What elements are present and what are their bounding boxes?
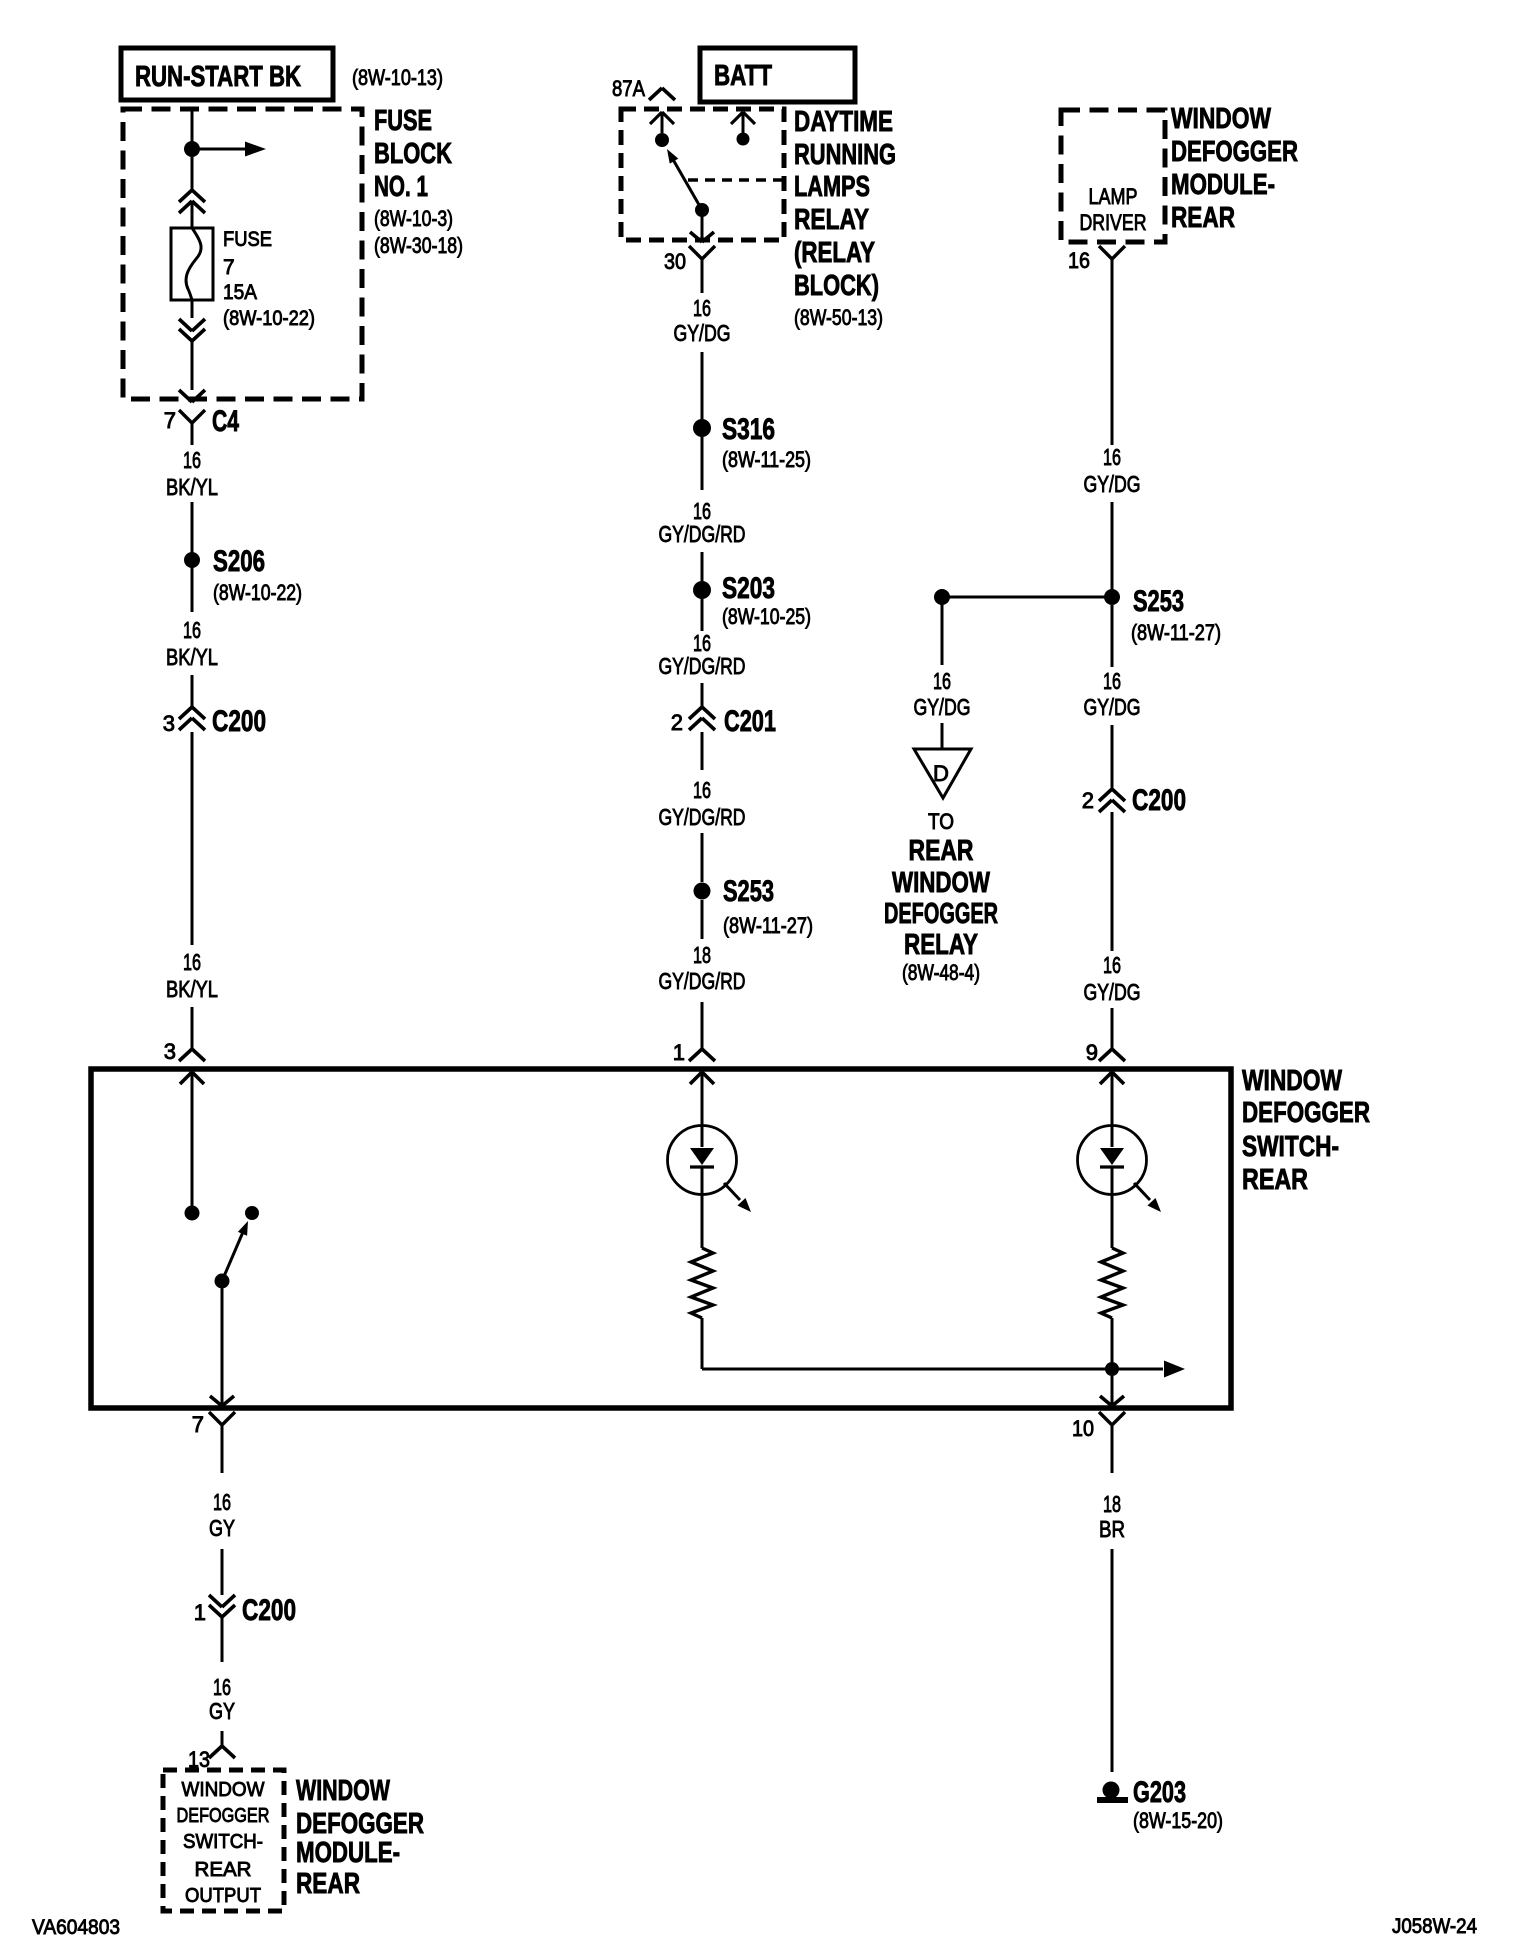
svg-text:GY: GY (209, 1698, 235, 1724)
wire (701, 552, 704, 581)
svg-text:(8W-11-27): (8W-11-27) (723, 913, 813, 938)
svg-text:G203: G203 (1133, 1776, 1186, 1809)
wire (1111, 725, 1114, 789)
splice S253 junction (934, 585, 1221, 645)
wire label 16 BK/YL (166, 617, 218, 670)
wire label 16 GY/DG (1084, 444, 1141, 497)
wire label 16 GY (209, 1674, 235, 1724)
svg-text:1: 1 (673, 1040, 685, 1065)
svg-text:9: 9 (1086, 1040, 1098, 1065)
svg-text:TO: TO (928, 809, 954, 834)
window defogger switch box outline (91, 1069, 1231, 1408)
svg-text:GY/DG: GY/DG (674, 320, 731, 346)
switch box pin 3 (164, 1039, 205, 1064)
svg-text:WINDOW: WINDOW (182, 1779, 265, 1801)
svg-text:WINDOW: WINDOW (892, 867, 990, 899)
wire (191, 1007, 194, 1049)
splice S316 (693, 413, 811, 472)
svg-text:(8W-10-3): (8W-10-3) (374, 206, 453, 231)
wire (1111, 605, 1114, 667)
svg-text:NO. 1: NO. 1 (374, 171, 428, 203)
svg-text:REAR: REAR (1171, 202, 1235, 234)
wire to fuse block bottom edge (191, 341, 194, 390)
indicator lamp (LED) pin 9 side (1078, 1126, 1147, 1196)
wire (221, 1549, 224, 1595)
svg-text:C201: C201 (724, 705, 776, 738)
svg-text:GY/DG: GY/DG (1084, 979, 1141, 1005)
svg-text:MODULE-: MODULE- (296, 1837, 400, 1869)
svg-text:BATT: BATT (714, 60, 772, 92)
svg-text:SWITCH-: SWITCH- (183, 1831, 263, 1853)
svg-text:REAR: REAR (296, 1868, 360, 1900)
svg-text:REAR: REAR (909, 835, 974, 867)
svg-text:GY/DG: GY/DG (1084, 471, 1141, 497)
svg-text:(8W-10-22): (8W-10-22) (213, 580, 302, 605)
junction box RUN-START BK (121, 48, 333, 100)
svg-text:GY/DG: GY/DG (914, 694, 971, 720)
svg-text:(8W-15-20): (8W-15-20) (1133, 1808, 1223, 1833)
svg-text:16: 16 (693, 295, 711, 321)
svg-text:RUN-START BK: RUN-START BK (135, 61, 301, 93)
wire to ground (1111, 1549, 1114, 1772)
wire below fuse (191, 300, 194, 318)
switch arm with arrow (215, 1221, 249, 1289)
svg-text:S206: S206 (213, 545, 265, 578)
connector C200 pin 1 (194, 1594, 296, 1627)
svg-text:BLOCK: BLOCK (374, 138, 452, 170)
svg-text:GY: GY (209, 1515, 235, 1541)
window defogger switch output dashed box (163, 1770, 284, 1911)
svg-text:REAR: REAR (195, 1859, 252, 1881)
wire (221, 1617, 224, 1662)
svg-text:WINDOW: WINDOW (1171, 103, 1271, 135)
svg-text:GY/DG/RD: GY/DG/RD (659, 521, 746, 547)
svg-text:C200: C200 (1132, 784, 1186, 817)
switch box pin 10 connector (1072, 1412, 1125, 1473)
wire label 16 BK/YL (166, 949, 218, 1002)
label DAYTIME RUNNING LAMPS RELAY (RELAY BLOCK) (794, 106, 896, 330)
svg-text:16: 16 (1103, 444, 1121, 470)
relay pin 87A label (612, 76, 645, 101)
wire (701, 1002, 704, 1049)
svg-text:(8W-10-13): (8W-10-13) (352, 65, 443, 90)
module pin 13 (188, 1746, 235, 1772)
svg-text:S253: S253 (723, 875, 774, 908)
sheet code J058W-24 (1392, 1915, 1477, 1938)
svg-text:RELAY: RELAY (794, 204, 869, 236)
svg-text:VA604803: VA604803 (32, 1916, 120, 1939)
svg-text:7: 7 (223, 256, 235, 279)
svg-text:10: 10 (1072, 1416, 1094, 1441)
wire label 16 BK/YL (166, 447, 218, 500)
label WINDOW DEFOGGER MODULE-REAR (bottom) (296, 1775, 424, 1900)
wire (1111, 812, 1114, 951)
svg-text:S203: S203 (722, 572, 775, 605)
branch arrow to right (192, 142, 266, 157)
wire (221, 1731, 224, 1746)
node junction dot in fuse block (184, 141, 200, 157)
svg-text:(8W-50-13): (8W-50-13) (794, 305, 883, 330)
wire label 18 BR (1099, 1491, 1125, 1542)
module pin 16 connector (1068, 246, 1125, 281)
svg-text:BK/YL: BK/YL (166, 976, 218, 1002)
common rail with arrow (702, 1361, 1185, 1378)
connector C4 pin 7 (164, 405, 239, 445)
wire (701, 437, 704, 490)
off-page connector D triangle (914, 749, 971, 798)
chevron above relay pin 87A (649, 88, 675, 100)
wire label 16 GY/DG (branch) (914, 668, 971, 720)
relay switch arm (667, 149, 709, 217)
svg-text:(8W-10-22): (8W-10-22) (223, 307, 315, 330)
wire (191, 560, 194, 612)
svg-text:DRIVER: DRIVER (1080, 210, 1147, 235)
wire (701, 900, 704, 939)
wire into box pin 3 (180, 1072, 204, 1206)
fuse block no.1 dashed outline (123, 109, 362, 399)
wire label 16 GY/DG (1084, 952, 1141, 1005)
svg-text:GY/DG: GY/DG (1084, 694, 1141, 720)
wire (191, 732, 194, 945)
splice S206 (184, 545, 302, 605)
wire into box pin 9 (1100, 1072, 1124, 1126)
svg-text:WINDOW: WINDOW (1242, 1065, 1342, 1097)
svg-text:MODULE-: MODULE- (1171, 169, 1275, 201)
label FUSE BLOCK NO. 1 (374, 105, 463, 258)
svg-text:16: 16 (1103, 668, 1121, 694)
svg-text:16: 16 (213, 1489, 231, 1515)
svg-text:FUSE: FUSE (223, 228, 272, 251)
svg-text:OUTPUT: OUTPUT (185, 1885, 261, 1907)
wire (701, 732, 704, 770)
svg-text:16: 16 (693, 777, 711, 803)
sheet code VA604803 (32, 1916, 120, 1939)
label TO REAR WINDOW DEFOGGER RELAY (884, 809, 998, 985)
svg-text:15A: 15A (223, 281, 257, 304)
wire label 16 GY/DG/RD (659, 777, 746, 830)
indicator lamp (LED) pin 1 side (668, 1126, 737, 1196)
svg-text:2: 2 (671, 710, 683, 735)
svg-text:(8W-10-25): (8W-10-25) (722, 604, 811, 629)
svg-text:(8W-11-27): (8W-11-27) (1131, 620, 1221, 645)
wire (1111, 1008, 1114, 1049)
svg-text:BLOCK): BLOCK) (794, 270, 879, 302)
wire (1111, 272, 1114, 445)
window defogger module dashed outline (1061, 110, 1165, 242)
svg-text:7: 7 (164, 408, 176, 433)
svg-text:(RELAY: (RELAY (794, 237, 875, 269)
resistor (pin 9 leg) (1101, 1248, 1123, 1318)
switch contact dot (right) (245, 1206, 259, 1220)
wire from RUN-START BK into fuse block (191, 107, 194, 190)
wire from lamp to resistor (1111, 1195, 1114, 1248)
wire (701, 352, 704, 419)
lamp illumination arrow (1134, 1183, 1161, 1212)
wire label 18 GY/DG/RD (659, 942, 746, 994)
switch box pin 7 connector (192, 1412, 235, 1473)
svg-text:2: 2 (1082, 788, 1094, 813)
wire (191, 675, 194, 707)
connector C200 pin 2 (1082, 784, 1186, 817)
svg-text:LAMP: LAMP (1089, 184, 1138, 209)
svg-text:C200: C200 (212, 705, 266, 738)
svg-text:S253: S253 (1133, 585, 1184, 618)
wire label 16 GY (209, 1489, 235, 1541)
svg-text:D: D (933, 761, 949, 786)
svg-text:REAR: REAR (1242, 1164, 1308, 1196)
svg-text:S316: S316 (722, 413, 775, 446)
svg-text:DEFOGGER: DEFOGGER (1242, 1097, 1370, 1129)
connector C201 pin 2 (671, 705, 776, 738)
svg-text:GY/DG/RD: GY/DG/RD (659, 804, 746, 830)
svg-text:SWITCH-: SWITCH- (1242, 1131, 1339, 1163)
svg-text:C4: C4 (212, 405, 239, 438)
label WINDOW DEFOGGER MODULE-REAR (top) (1171, 103, 1298, 234)
fuse label FUSE 7 15A (223, 228, 315, 330)
svg-text:GY/DG/RD: GY/DG/RD (659, 968, 746, 994)
svg-text:DEFOGGER: DEFOGGER (177, 1805, 270, 1827)
svg-text:RUNNING: RUNNING (794, 139, 896, 171)
svg-text:87A: 87A (612, 76, 645, 101)
relay inner dashed divider (688, 178, 782, 182)
relay common wire to pin 30 (690, 210, 714, 242)
svg-text:GY/DG/RD: GY/DG/RD (659, 653, 746, 679)
svg-text:16: 16 (213, 1674, 231, 1700)
splice S253 (694, 875, 814, 938)
connector double chevron up above fuse (179, 190, 205, 228)
svg-text:7: 7 (192, 1412, 204, 1437)
svg-text:C200: C200 (242, 1594, 296, 1627)
wire into box pin 1 (690, 1072, 714, 1126)
wire resistor to pin 10 (1100, 1318, 1124, 1406)
svg-text:J058W-24: J058W-24 (1392, 1915, 1477, 1938)
ground G203 (1097, 1776, 1223, 1833)
wire (701, 599, 704, 631)
lamp illumination arrow (724, 1183, 751, 1212)
svg-text:1: 1 (194, 1600, 206, 1625)
wire label 16 GY/DG (674, 295, 731, 346)
svg-text:FUSE: FUSE (374, 105, 432, 137)
fuse F7 body (171, 228, 213, 300)
svg-text:(8W-48-4): (8W-48-4) (902, 960, 980, 985)
relay pin from BATT (731, 112, 755, 146)
exit chevron at fuse block bottom (179, 390, 205, 402)
svg-text:(8W-30-18): (8W-30-18) (374, 233, 463, 258)
wire resistor to common rail (701, 1318, 704, 1369)
connector C200 pin 3 (163, 705, 266, 738)
wire from lamp to resistor (701, 1195, 704, 1248)
svg-text:DEFOGGER: DEFOGGER (884, 898, 998, 930)
wire label 16 GY/DG/RD (659, 630, 746, 679)
switch box pin 9 (1086, 1040, 1125, 1065)
svg-text:16: 16 (933, 668, 951, 694)
reference (8W-10-13) (352, 65, 443, 90)
connector double chevron down below fuse (179, 319, 205, 341)
svg-text:DAYTIME: DAYTIME (794, 106, 893, 138)
svg-text:30: 30 (664, 249, 686, 274)
wire (191, 502, 194, 560)
label WINDOW DEFOGGER SWITCH-REAR (1242, 1065, 1370, 1196)
svg-text:(8W-11-25): (8W-11-25) (722, 447, 811, 472)
svg-text:16: 16 (183, 949, 201, 975)
resistor (pin 1 leg) (691, 1248, 713, 1318)
relay pin 87A post (650, 112, 674, 147)
label LAMP DRIVER (1080, 184, 1147, 235)
svg-text:DEFOGGER: DEFOGGER (1171, 136, 1298, 168)
splice S203 (693, 572, 811, 629)
svg-text:3: 3 (163, 711, 175, 736)
switch common wire to pin 7 (210, 1281, 234, 1406)
svg-text:16: 16 (1103, 952, 1121, 978)
svg-text:16: 16 (1068, 248, 1090, 273)
junction box BATT (700, 48, 855, 102)
svg-text:BR: BR (1099, 1516, 1125, 1542)
svg-text:16: 16 (183, 617, 201, 643)
switch contact dot (from pin 3) (185, 1206, 200, 1221)
svg-text:3: 3 (164, 1039, 176, 1064)
svg-text:16: 16 (183, 447, 201, 473)
svg-text:18: 18 (693, 942, 711, 968)
svg-text:18: 18 (1103, 1491, 1121, 1517)
svg-text:RELAY: RELAY (904, 929, 978, 961)
wire (941, 723, 944, 749)
svg-text:LAMPS: LAMPS (794, 171, 870, 203)
wire label 16 GY/DG (1084, 668, 1141, 720)
relay pin 30 connector (664, 246, 715, 293)
wire (701, 833, 704, 882)
svg-text:BK/YL: BK/YL (166, 474, 218, 500)
wire label 16 GY/DG/RD (659, 498, 746, 547)
wire (1111, 502, 1114, 589)
label WINDOW DEFOGGER SWITCH-REAR OUTPUT (inside box) (177, 1779, 270, 1907)
switch box pin 1 (673, 1040, 715, 1065)
branch wire to relay indicator (941, 597, 944, 665)
daytime running lamps relay dashed outline (621, 109, 784, 240)
svg-text:DEFOGGER: DEFOGGER (296, 1808, 424, 1840)
wire (701, 683, 704, 707)
svg-text:BK/YL: BK/YL (166, 644, 218, 670)
svg-text:WINDOW: WINDOW (296, 1775, 390, 1807)
